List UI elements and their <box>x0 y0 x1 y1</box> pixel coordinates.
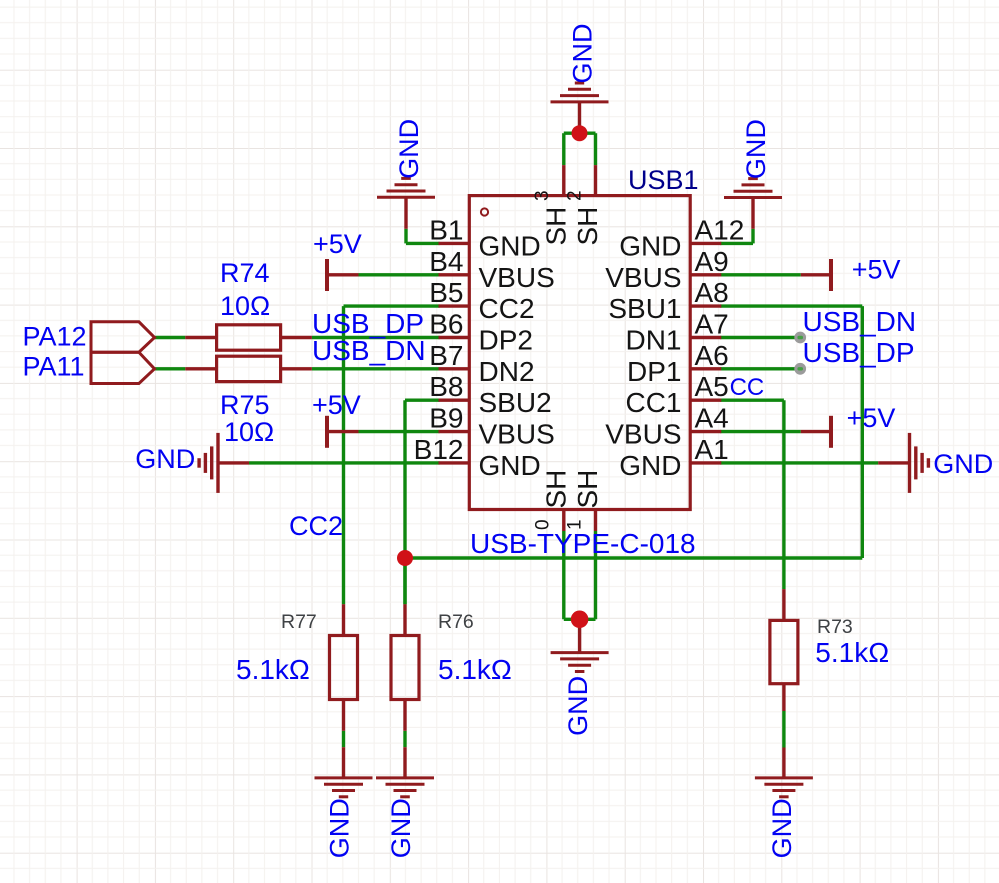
svg-text:A1: A1 <box>695 434 729 465</box>
svg-text:DP2: DP2 <box>479 325 533 356</box>
svg-text:A8: A8 <box>695 277 729 308</box>
svg-text:DN2: DN2 <box>479 356 535 387</box>
svg-text:10Ω: 10Ω <box>220 291 270 321</box>
svg-text:+5V: +5V <box>312 390 361 420</box>
svg-text:B8: B8 <box>429 371 463 402</box>
svg-text:SH: SH <box>572 207 603 246</box>
svg-text:5.1kΩ: 5.1kΩ <box>815 637 889 668</box>
svg-text:GND: GND <box>933 449 993 479</box>
svg-text:GND: GND <box>619 450 681 481</box>
svg-text:VBUS: VBUS <box>479 262 555 293</box>
svg-text:GND: GND <box>568 24 598 84</box>
svg-text:PA12: PA12 <box>23 322 87 352</box>
svg-text:GND: GND <box>741 119 771 179</box>
svg-text:GND: GND <box>767 798 797 858</box>
svg-text:CC2: CC2 <box>289 511 343 541</box>
svg-text:2: 2 <box>565 190 586 201</box>
svg-text:SH: SH <box>540 207 571 246</box>
svg-text:B4: B4 <box>429 246 463 277</box>
svg-text:R75: R75 <box>220 390 270 420</box>
svg-text:USB_DN: USB_DN <box>803 306 917 337</box>
svg-text:B6: B6 <box>429 309 463 340</box>
svg-text:R77: R77 <box>281 611 317 633</box>
svg-text:GND: GND <box>386 798 416 858</box>
svg-text:A6: A6 <box>695 340 729 371</box>
svg-text:GND: GND <box>479 450 541 481</box>
svg-text:5.1kΩ: 5.1kΩ <box>438 654 512 685</box>
svg-text:GND: GND <box>619 230 681 261</box>
svg-text:A9: A9 <box>695 246 729 277</box>
svg-text:A7: A7 <box>695 309 729 340</box>
svg-text:+5V: +5V <box>847 403 896 433</box>
svg-text:USB_DN: USB_DN <box>312 335 426 366</box>
svg-text:GND: GND <box>325 798 355 858</box>
svg-text:B1: B1 <box>429 214 463 245</box>
svg-text:B12: B12 <box>414 434 464 465</box>
svg-text:CC1: CC1 <box>625 387 681 418</box>
svg-text:R74: R74 <box>220 258 270 288</box>
svg-text:USB-TYPE-C-018: USB-TYPE-C-018 <box>470 528 696 559</box>
svg-text:B7: B7 <box>429 340 463 371</box>
svg-text:A12: A12 <box>695 214 745 245</box>
svg-text:B5: B5 <box>429 277 463 308</box>
svg-text:SH: SH <box>572 470 603 509</box>
svg-text:PA11: PA11 <box>23 352 85 382</box>
svg-text:SBU1: SBU1 <box>608 293 681 324</box>
svg-text:DP1: DP1 <box>627 356 681 387</box>
svg-text:A5: A5 <box>695 371 729 402</box>
svg-text:VBUS: VBUS <box>605 262 681 293</box>
svg-text:+5V: +5V <box>852 255 901 285</box>
svg-text:CC2: CC2 <box>479 293 535 324</box>
svg-text:3: 3 <box>532 190 553 201</box>
svg-text:VBUS: VBUS <box>479 419 555 450</box>
svg-text:USB1: USB1 <box>628 165 699 195</box>
svg-text:GND: GND <box>479 230 541 261</box>
svg-text:SH: SH <box>540 470 571 509</box>
svg-text:DN1: DN1 <box>625 325 681 356</box>
svg-text:CC: CC <box>730 374 765 401</box>
svg-text:USB_DP: USB_DP <box>803 337 915 368</box>
svg-text:B9: B9 <box>429 403 463 434</box>
svg-text:GND: GND <box>135 444 195 474</box>
svg-text:10Ω: 10Ω <box>224 417 274 447</box>
svg-text:GND: GND <box>563 676 593 736</box>
svg-text:R73: R73 <box>817 616 853 638</box>
svg-text:VBUS: VBUS <box>605 419 681 450</box>
svg-text:5.1kΩ: 5.1kΩ <box>236 654 310 685</box>
svg-text:R76: R76 <box>438 611 474 633</box>
svg-text:+5V: +5V <box>313 229 362 259</box>
svg-text:GND: GND <box>394 119 424 179</box>
svg-text:A4: A4 <box>695 403 729 434</box>
svg-text:SBU2: SBU2 <box>479 387 552 418</box>
